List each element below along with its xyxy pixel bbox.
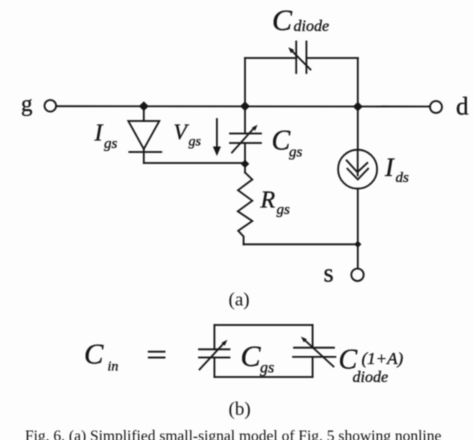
- wire (b) box left vertical lower: [213, 358, 215, 378]
- wire top loop right horizontal: [306, 57, 357, 59]
- junction dot at diode branch: [139, 101, 149, 111]
- svg-text:I: I: [384, 153, 395, 182]
- svg-text:C: C: [272, 4, 293, 37]
- wire top loop right vertical: [357, 58, 359, 107]
- capacitor Cdiode(b) top plate: [294, 347, 334, 349]
- wire s vertical: [357, 244, 359, 268]
- wire bottom horizontal to s: [244, 243, 358, 245]
- svg-text:diode: diode: [353, 369, 389, 386]
- current source chevron 2: [347, 169, 368, 180]
- current source inner line: [357, 150, 359, 176]
- wire Rgs top: [244, 164, 246, 173]
- wire diode bottom: [143, 149, 145, 163]
- junction dot at Cgs bottom: [241, 160, 250, 168]
- svg-text:(1+A): (1+A): [362, 349, 404, 368]
- capacitor Cdiode variable arrow: [291, 50, 311, 70]
- svg-text:d: d: [456, 94, 469, 121]
- diode cathode bar: [129, 151, 161, 153]
- wire bottom-left horizontal: [144, 162, 245, 164]
- capacitor Cdiode(b) variable arrow: [304, 339, 334, 367]
- wire below current source: [357, 189, 359, 245]
- capacitor Cdiode(b) bottom plate: [293, 356, 335, 358]
- svg-text:gs: gs: [260, 360, 274, 377]
- wire main horizontal g to d: [56, 105, 429, 107]
- wire (b) box top: [214, 324, 312, 326]
- Vgs arrowhead: [213, 147, 221, 157]
- svg-text:C: C: [84, 339, 104, 371]
- Vgs arrow line: [216, 119, 218, 147]
- svg-text:(b): (b): [229, 399, 251, 420]
- wire (b) box bottom: [214, 376, 312, 378]
- wire Cgs top: [244, 106, 246, 133]
- wire top loop left horizontal: [245, 57, 296, 59]
- current source Ids circle: [338, 150, 377, 189]
- capacitor Cgs(b) variable arrow: [200, 343, 225, 370]
- svg-text:gs: gs: [289, 145, 303, 161]
- equals sign: [149, 351, 165, 353]
- wire Cgs bottom: [244, 143, 246, 164]
- capacitor Cgs(b) top plate: [199, 348, 230, 350]
- terminal d circle: [430, 101, 442, 113]
- junction dot at drain branch: [353, 102, 363, 112]
- svg-text:diode: diode: [294, 18, 330, 35]
- svg-text:s: s: [324, 259, 334, 288]
- svg-text:gs: gs: [189, 135, 202, 150]
- capacitor Cgs top plate: [230, 133, 261, 135]
- wire top loop left vertical: [244, 58, 246, 106]
- capacitor Cgs(b) bottom plate: [199, 357, 230, 359]
- resistor Rgs zigzag: [238, 173, 253, 245]
- capacitor Cdiode left plate: [295, 42, 297, 74]
- svg-text:gs: gs: [277, 202, 291, 218]
- wire drain vertical to current source: [357, 107, 359, 150]
- wire (b) box left vertical upper: [213, 325, 215, 349]
- wire (b) box right vertical upper: [312, 325, 314, 348]
- svg-text:(a): (a): [229, 290, 250, 311]
- diode Igs triangle: [128, 121, 159, 149]
- current source chevron 1: [347, 160, 368, 172]
- svg-text:in: in: [108, 360, 119, 375]
- capacitor Cgs bottom plate: [230, 142, 261, 144]
- svg-text:I: I: [94, 121, 104, 147]
- svg-text:C: C: [272, 126, 291, 157]
- terminal s circle: [351, 269, 363, 281]
- svg-text:ds: ds: [396, 170, 410, 186]
- wire (b) box right vertical lower: [312, 357, 314, 377]
- wire diode branch top: [143, 106, 145, 121]
- svg-text:gs: gs: [104, 136, 118, 152]
- terminal g circle: [45, 100, 57, 112]
- svg-text:Fig. 6. (a) Simplified small-: Fig. 6. (a) Simplified small-signal mode…: [25, 428, 441, 440]
- junction dot at s: [354, 241, 361, 248]
- svg-text:R: R: [260, 188, 276, 214]
- svg-text:g: g: [21, 91, 33, 116]
- svg-text:C: C: [241, 340, 262, 373]
- capacitor Cdiode right plate: [305, 42, 307, 74]
- capacitor Cgs variable arrow: [232, 128, 255, 153]
- junction dot at Cgs branch top: [240, 101, 250, 111]
